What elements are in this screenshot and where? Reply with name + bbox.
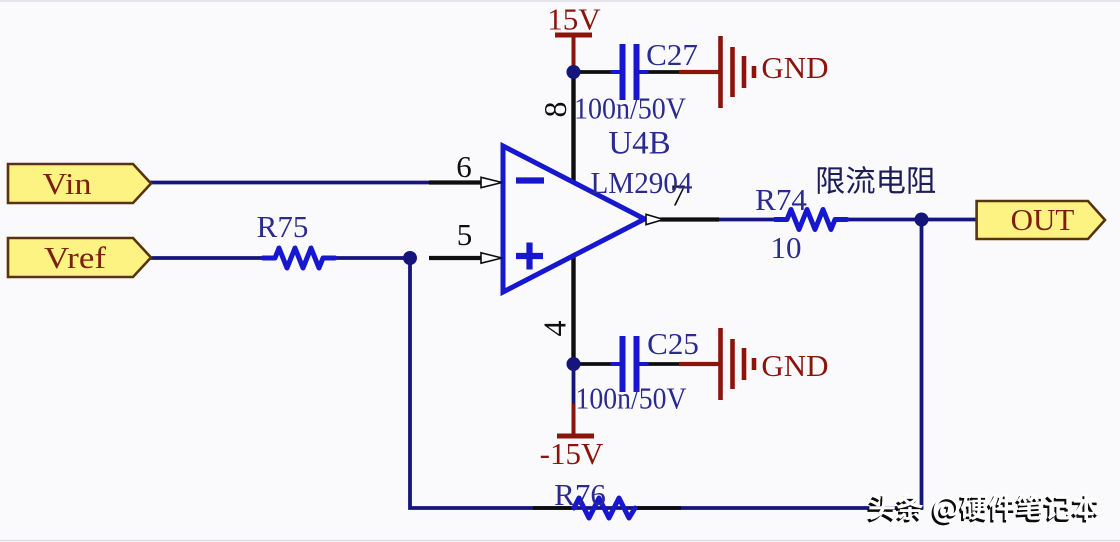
ground GND top bbox=[721, 36, 755, 108]
node top junction bbox=[567, 65, 581, 79]
svg-text:100n/50V: 100n/50V bbox=[576, 381, 688, 416]
node A junction bbox=[403, 251, 417, 265]
svg-text:Vref: Vref bbox=[44, 240, 107, 275]
svg-text:GND: GND bbox=[761, 348, 828, 383]
op-amp plus input symbol bbox=[516, 243, 543, 270]
watermark @硬件笔记本 bbox=[932, 499, 957, 525]
svg-text:6: 6 bbox=[456, 149, 472, 184]
svg-text:Vin: Vin bbox=[43, 166, 93, 201]
svg-text:100n/50V: 100n/50V bbox=[574, 91, 687, 126]
svg-text:5: 5 bbox=[457, 217, 473, 252]
pin 7 arrow bbox=[646, 214, 664, 224]
node bottom junction bbox=[567, 357, 581, 371]
op-amp U4B pin 8 lead bbox=[571, 72, 575, 182]
watermark 头条 bbox=[867, 496, 893, 522]
resistor R76 bbox=[533, 506, 575, 510]
svg-text:R74: R74 bbox=[755, 182, 807, 217]
net label 限流电阻 (current limiting resistor) bbox=[818, 167, 844, 194]
port Vin bbox=[8, 164, 151, 203]
svg-text:10: 10 bbox=[771, 230, 802, 265]
wire node top to C27 bbox=[574, 70, 612, 74]
svg-text:OUT: OUT bbox=[1011, 202, 1075, 237]
svg-text:C25: C25 bbox=[647, 326, 699, 361]
svg-text:LM2904: LM2904 bbox=[591, 165, 693, 200]
wire Vref to R75 bbox=[150, 256, 265, 260]
op-amp U4B pin 4 lead bbox=[571, 255, 575, 364]
wire node A down to feedback bbox=[410, 220, 922, 509]
resistor R75 bbox=[263, 248, 335, 268]
port Vref bbox=[8, 238, 151, 277]
wire node bottom to C25 bbox=[574, 362, 612, 366]
op-amp U4B triangle bbox=[503, 146, 645, 292]
capacitor C25 bbox=[611, 336, 649, 392]
capacitor C27 bbox=[611, 44, 649, 100]
wire C25 to GND bbox=[646, 362, 681, 366]
wire C27 to GND bbox=[646, 70, 681, 74]
port OUT bbox=[977, 201, 1105, 239]
svg-text:15V: 15V bbox=[547, 2, 601, 37]
pin 5 arrow bbox=[481, 253, 502, 263]
wire -15V node to power stem bbox=[572, 364, 576, 406]
svg-text:-15V: -15V bbox=[540, 436, 604, 471]
op-amp U4B pin 7 lead bbox=[660, 217, 719, 221]
node out junction bbox=[915, 213, 929, 227]
svg-text:R76: R76 bbox=[554, 477, 606, 512]
wire pin7 to R74 bbox=[718, 218, 776, 222]
wire R75 to node A bbox=[335, 256, 412, 260]
wire R74 to OUT bbox=[848, 218, 977, 222]
svg-text:R75: R75 bbox=[257, 209, 309, 244]
svg-text:U4B: U4B bbox=[608, 126, 670, 162]
svg-text:C27: C27 bbox=[646, 37, 698, 72]
ground GND bottom bbox=[721, 328, 755, 400]
op-amp minus input symbol bbox=[516, 177, 544, 183]
op-amp U4B pin 6 lead bbox=[429, 180, 484, 184]
resistor R74 bbox=[775, 210, 847, 230]
svg-text:4: 4 bbox=[537, 321, 573, 337]
power +15V bbox=[555, 35, 592, 72]
power -15V bbox=[557, 404, 594, 436]
svg-text:GND: GND bbox=[761, 50, 828, 85]
pin 6 arrow bbox=[481, 177, 502, 187]
svg-text:8: 8 bbox=[537, 102, 573, 118]
wire Vin to pin 6 bbox=[150, 181, 440, 185]
op-amp U4B pin 5 lead bbox=[429, 256, 484, 260]
